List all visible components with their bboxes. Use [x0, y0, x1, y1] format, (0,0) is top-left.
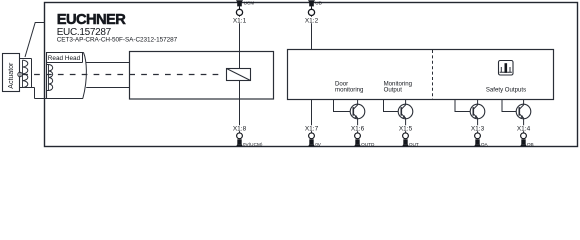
svg-text:CET3-AP-CRA-CH-50F-SA-C2312-15: CET3-AP-CRA-CH-50F-SA-C2312-157287	[57, 37, 178, 44]
svg-text:UCM: UCM	[244, 0, 255, 5]
terminal X1:5 (bottom)	[398, 125, 413, 146]
svg-text:X1:3: X1:3	[471, 125, 485, 132]
svg-text:X1:4: X1:4	[517, 125, 531, 132]
callout line bottom (actuator to read head base)	[34, 88, 36, 99]
callout line top (actuator to enclosure)	[25, 23, 45, 58]
dashed section divider	[432, 50, 434, 99]
transistor Q1 (door monitoring)	[334, 100, 365, 134]
svg-text:X1:7: X1:7	[305, 125, 319, 132]
svg-text:Actuator: Actuator	[8, 62, 15, 89]
svg-text:UB: UB	[315, 0, 322, 5]
coupling node circle	[18, 72, 22, 76]
svg-text:OUTD: OUTD	[361, 142, 375, 147]
svg-text:X1:8: X1:8	[233, 125, 247, 132]
svg-text:X1:5: X1:5	[399, 125, 413, 132]
transistor Q2 (monitoring output)	[384, 100, 413, 134]
wire X1:2 down to output box	[311, 15, 313, 49]
actuator coil top lead	[20, 58, 32, 60]
svg-text:Read Head: Read Head	[48, 55, 81, 62]
svg-text:X1:1: X1:1	[233, 17, 247, 24]
terminal X1:1 (top)	[232, 0, 247, 24]
output logic box	[288, 50, 554, 100]
terminal X1:7 (bottom)	[304, 125, 319, 146]
wire read head to logic box (lower)	[86, 87, 130, 89]
actuator box	[3, 54, 20, 92]
wire X1:1 down to converter	[239, 15, 241, 68]
svg-text:Safety Outputs: Safety Outputs	[486, 87, 526, 94]
svg-text:OA: OA	[481, 142, 489, 147]
device enclosure box	[45, 3, 578, 147]
read head box	[47, 53, 84, 99]
wire X1:7 from output box	[311, 100, 313, 134]
wire converter down to X1:8	[239, 81, 241, 134]
read head coil leads	[46, 65, 49, 91]
svg-text:X1:2: X1:2	[305, 17, 319, 24]
svg-text:X1:6: X1:6	[351, 125, 365, 132]
read head bottom edge	[35, 98, 84, 100]
read head torn right edge	[83, 53, 87, 99]
terminal X1:8 (bottom)	[232, 125, 247, 146]
wire read head to logic box (upper)	[86, 62, 131, 64]
read head coil winding	[49, 65, 53, 91]
svg-text:monitoring: monitoring	[335, 87, 363, 94]
svg-text:Output: Output	[384, 87, 403, 94]
safety outputs icon	[499, 61, 514, 76]
read head label compartment	[46, 53, 83, 63]
terminal X1:4 (bottom)	[516, 125, 531, 146]
svg-text:0V(UCM): 0V(UCM)	[243, 142, 263, 147]
svg-text:0V: 0V	[315, 142, 322, 147]
actuator coil winding	[23, 60, 28, 87]
terminal X1:6 (bottom)	[350, 125, 365, 146]
svg-text:EUCHNER: EUCHNER	[57, 12, 126, 28]
converter (rect with diagonal)	[227, 69, 251, 81]
transistor Q4 (safety output B)	[502, 100, 531, 134]
svg-text:OUT: OUT	[409, 142, 419, 147]
actuator coil bottom lead	[20, 87, 35, 89]
transponder logic box	[130, 52, 274, 100]
actuator coil core	[31, 59, 33, 88]
svg-text:OB: OB	[527, 142, 534, 147]
terminal X1:2 (top)	[304, 0, 319, 24]
terminal X1:3 (bottom)	[470, 125, 485, 146]
coupling axis dashed line	[22, 74, 222, 76]
transistor Q3 (safety output A)	[455, 100, 485, 134]
